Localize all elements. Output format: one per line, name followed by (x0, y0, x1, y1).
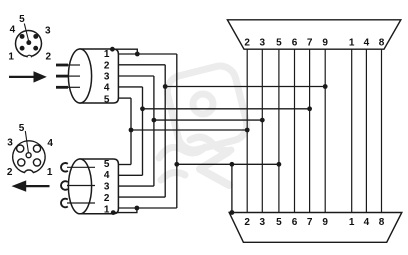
svg-text:2: 2 (7, 167, 13, 178)
svg-text:7: 7 (307, 38, 313, 49)
bus wire pin 2 (246, 49, 248, 212)
wire pin3 net to bus pin3 (154, 119, 262, 121)
wire pin2 net vertical column (164, 65, 166, 197)
X1 male contact pin b (56, 75, 80, 78)
pin 5 socket hole (bottom face) (26, 153, 31, 158)
pin 5 contact dot (top face) (26, 40, 31, 45)
connector X4 shell bottom (D-SUB 9 trapezoid) (229, 213, 402, 243)
node pin2 branch (163, 84, 168, 89)
svg-text:5: 5 (104, 159, 110, 170)
wire pin5 net to bus pin2 (131, 129, 247, 131)
svg-text:4: 4 (364, 217, 370, 228)
mating direction arrow (left) (12, 180, 50, 191)
svg-text:1: 1 (104, 204, 110, 215)
svg-text:5: 5 (276, 38, 282, 49)
wire X2 pin1 lead (118, 207, 176, 209)
svg-text:4: 4 (104, 170, 110, 181)
pin 5 leader line (top face) (24, 24, 28, 41)
bus wire pin 6 (294, 49, 296, 212)
svg-text:1: 1 (349, 217, 355, 228)
node pin4 branch (140, 106, 145, 111)
node pin3 branch (152, 118, 157, 123)
bus wire pin 1 (351, 49, 353, 212)
node bus3 tap (260, 118, 265, 123)
svg-text:7: 7 (307, 217, 313, 228)
wire X2 pin5 lead (118, 164, 131, 166)
pin 4 socket hole (bottom face) (33, 145, 40, 152)
bus wire pin 5 (278, 49, 280, 212)
wire shield drop to X4 shell (231, 164, 233, 212)
svg-text:3: 3 (7, 137, 13, 148)
svg-text:4: 4 (47, 138, 53, 149)
node bus7 tap (307, 106, 312, 111)
wire pin2 net to bus pin9 (165, 86, 325, 88)
bus wire pin 7 (309, 49, 311, 212)
X1 male contact pin c (56, 86, 80, 89)
connector X1 face view (M12 male, top left) (16, 31, 42, 58)
wire X1 pin3 lead (118, 75, 153, 77)
svg-text:2: 2 (104, 60, 110, 71)
svg-text:6: 6 (292, 217, 298, 228)
node pin1 jog bottom (135, 206, 140, 211)
node pin1 branch (174, 162, 179, 167)
svg-text:1: 1 (8, 51, 14, 62)
wire pin4 net to bus pin7 (143, 108, 310, 110)
node X1 shell (110, 47, 115, 52)
node bus2 tap (245, 128, 250, 133)
connector X2 face view (M12 female, bottom left) (13, 141, 45, 173)
svg-text:8: 8 (379, 38, 385, 49)
svg-text:1: 1 (104, 49, 110, 60)
wire pin5 net vertical column (130, 98, 132, 164)
pin 1 socket hole (bottom face) (33, 159, 40, 166)
svg-text:4: 4 (104, 83, 110, 94)
X2 female contact c (61, 199, 95, 208)
pin 5 leader line (bottom face) (25, 131, 28, 153)
wire X2 pin2 lead (118, 196, 165, 198)
connector X2 body (M12 female, side view) (68, 159, 118, 214)
wire X1 shell to pin1 net (jog) (112, 49, 137, 54)
watermark (159, 63, 250, 185)
bus wire pin 8 (381, 49, 383, 212)
svg-text:6: 6 (292, 38, 298, 49)
svg-text:2: 2 (46, 51, 52, 62)
node X2 shell (111, 210, 116, 215)
svg-text:2: 2 (244, 217, 250, 228)
wire X1 pin1 lead (118, 53, 176, 55)
wire X2 pin3 lead (118, 185, 153, 187)
wire X1 pin2 lead (118, 64, 165, 66)
pin 3 socket hole (bottom face) (17, 145, 24, 152)
svg-text:5: 5 (19, 123, 25, 134)
pin 4 contact dot (top face) (20, 34, 25, 39)
wire pin4 net vertical column (142, 87, 144, 175)
wire pin1 net to X3/X4 pin5 (177, 163, 279, 165)
node bus9 tap (323, 84, 328, 89)
wire X1 pin5 lead (118, 97, 131, 99)
wire X1 pin4 lead (118, 86, 142, 88)
wire pin1 net vertical column (176, 54, 178, 208)
mating direction arrow (right) (9, 71, 47, 82)
svg-text:2: 2 (104, 193, 110, 204)
pin 2 contact dot (top face) (33, 46, 38, 51)
svg-text:9: 9 (322, 38, 328, 49)
pin 1 contact dot (top face) (20, 46, 25, 51)
wire X2 shell to pin1 net (jog) (113, 208, 137, 213)
connector X3 shell top (D-SUB 9 trapezoid) (227, 20, 400, 49)
wire X2 pin4 lead (118, 174, 142, 176)
pin 3 contact dot (top face) (33, 34, 38, 39)
node pin1 jog top (135, 52, 140, 57)
svg-text:3: 3 (104, 182, 110, 193)
node X4 shell (230, 210, 235, 215)
svg-text:8: 8 (379, 217, 385, 228)
node bus5 tap (277, 162, 282, 167)
svg-text:5: 5 (19, 14, 25, 25)
node pin5 branch (129, 128, 134, 133)
node shield drop junction (230, 162, 235, 167)
svg-text:4: 4 (10, 25, 16, 36)
wire pin3 net vertical column (153, 76, 155, 186)
svg-text:1: 1 (349, 38, 355, 49)
svg-text:3: 3 (260, 38, 266, 49)
svg-text:4: 4 (364, 38, 370, 49)
svg-text:5: 5 (276, 217, 282, 228)
svg-text:5: 5 (104, 94, 110, 105)
svg-text:3: 3 (260, 217, 266, 228)
svg-text:1: 1 (47, 167, 53, 178)
svg-text:9: 9 (322, 217, 328, 228)
bus wire pin 3 (261, 49, 263, 212)
svg-text:3: 3 (45, 26, 51, 37)
bus wire pin 4 (365, 49, 367, 212)
X1 male contact pin a (56, 64, 80, 67)
X2 female contact b (61, 181, 95, 190)
X2 female contact a (61, 163, 95, 172)
svg-text:3: 3 (104, 72, 110, 83)
pin 2 socket hole (bottom face) (18, 159, 25, 166)
bus wire pin 9 (324, 49, 326, 212)
svg-text:2: 2 (244, 38, 250, 49)
connector X1 body (M12 male, side view) (68, 49, 118, 103)
